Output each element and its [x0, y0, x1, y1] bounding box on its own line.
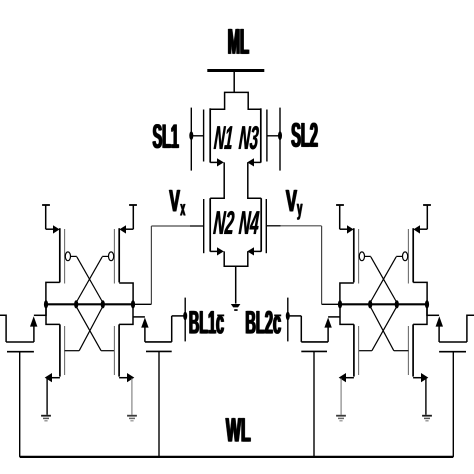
nmos N4 gate	[265, 199, 267, 253]
label SL1	[152, 124, 179, 148]
overline on BL2c c	[274, 315, 281, 317]
nmos N2 gate	[203, 199, 205, 253]
N2 source wire	[210, 250, 217, 252]
label N4	[238, 211, 259, 234]
SL2 vertical line	[279, 108, 281, 171]
nmos N4 channel	[260, 198, 262, 251]
nmos N1 gate	[203, 110, 205, 162]
N3 source wire	[254, 161, 261, 163]
nmos N3 channel	[260, 108, 262, 162]
label WL	[225, 418, 250, 441]
nmos N3 gate	[266, 110, 268, 162]
N3 source to N4 drain step	[248, 162, 261, 198]
SL1 junction dot	[189, 131, 193, 140]
SL2 junction dot	[278, 131, 282, 140]
SL2 wire to N3 gate	[267, 135, 280, 137]
Vy wire to N4 gate	[266, 225, 280, 227]
N1 source wire	[210, 161, 217, 163]
SL1 vertical line	[190, 108, 192, 171]
label Vxs	[180, 204, 186, 215]
N4 source wire	[254, 250, 261, 252]
nmos N2 channel	[209, 198, 211, 251]
label N1	[214, 126, 233, 149]
match line ML bar	[207, 69, 264, 72]
N1 source arrow	[217, 158, 224, 166]
ground center	[231, 304, 241, 307]
label Vys	[297, 204, 303, 220]
N3 source arrow	[247, 158, 254, 166]
N2 source arrow	[217, 247, 224, 255]
source join of N2/N4	[224, 251, 248, 266]
nmos N1 channel	[209, 108, 211, 162]
N4 source arrow	[247, 247, 254, 255]
label BL2c	[246, 311, 281, 334]
Vx wire to N2 gate	[151, 225, 190, 227]
label N3	[238, 126, 259, 149]
label VxV	[169, 190, 180, 211]
label N2	[213, 211, 235, 234]
drain join of N1/N3	[210, 92, 261, 109]
ML stem	[233, 71, 235, 93]
SL1 wire to N1 gate	[191, 135, 203, 137]
label BL1c	[189, 311, 224, 334]
label VyV	[286, 190, 298, 211]
label SL2	[291, 123, 318, 147]
word line WL	[20, 456, 454, 458]
overline on BL1c c	[217, 315, 224, 317]
N1 source to N2 drain step	[210, 162, 224, 198]
ground stem center	[235, 266, 237, 303]
label ML	[228, 29, 249, 54]
